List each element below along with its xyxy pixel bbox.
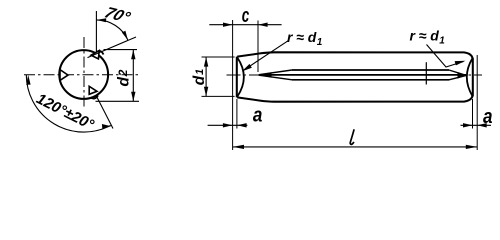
svg-text:a: a — [253, 105, 263, 127]
d1 arrow bottom — [204, 87, 208, 97]
a dimension line right — [461, 124, 492, 126]
d1 dimension line — [205, 57, 207, 96]
svg-text:d1: d1 — [191, 69, 208, 86]
pin left end face — [236, 57, 238, 98]
extension line groove start — [257, 21, 259, 73]
extension line pin right tip — [476, 55, 478, 150]
70° arc arrow right — [122, 31, 128, 40]
70° arc arrow left — [97, 18, 107, 22]
c arrow left — [223, 23, 233, 27]
groove notch left (180°) — [60, 70, 68, 81]
centerline (side view) — [227, 74, 483, 76]
l dimension line — [233, 146, 478, 148]
120° arc arrow left — [26, 75, 30, 85]
a arrow left-inner — [237, 123, 247, 127]
d2 extension line top — [104, 49, 138, 51]
a dimension line left — [208, 124, 248, 126]
centerline vertical (circle view) — [83, 37, 85, 109]
l arrow right — [466, 145, 477, 149]
leader arrow right — [455, 61, 466, 66]
leader r~d1 right — [427, 45, 464, 68]
crown edge arc left — [237, 57, 244, 96]
pin right end face — [472, 58, 474, 96]
groove taper top-right — [449, 70, 466, 75]
d2 extension line bottom — [96, 100, 140, 102]
bump top-right notch — [98, 51, 104, 55]
groove taper top-left — [259, 70, 292, 75]
groove apex wedge right — [458, 72, 467, 79]
pin cross-section circle — [59, 50, 108, 99]
centerline horizontal (circle view) — [24, 74, 139, 76]
70° flank line slanted — [88, 37, 137, 58]
d1 extension top — [202, 56, 235, 58]
groove apex wedge left — [259, 72, 272, 78]
svg-text:d2: d2 — [116, 69, 133, 86]
c dimension line — [209, 24, 281, 26]
d1 arrow top — [204, 57, 208, 67]
crown edge arc right — [467, 58, 473, 96]
c arrow right — [258, 23, 268, 27]
a arrow right-outer — [477, 123, 487, 127]
label l — [350, 129, 354, 144]
120° radial extension line — [97, 96, 114, 128]
bump bottom-right notch — [91, 96, 99, 99]
120° arc arrow bottom — [102, 124, 111, 129]
a arrow left-outer — [223, 123, 233, 127]
groove line middle — [259, 74, 466, 76]
120° dimension arc — [26, 75, 110, 132]
l arrow left — [233, 145, 244, 149]
label 70° — [101, 4, 133, 26]
pin outline bottom — [237, 96, 472, 102]
extension line pin left tip — [232, 20, 234, 150]
d1 extension bottom — [202, 95, 235, 97]
groove line bottom — [292, 79, 449, 81]
70° dimension arc — [97, 20, 128, 40]
groove full-depth tick — [425, 62, 427, 84]
groove line top — [292, 69, 449, 71]
d2 dimension line — [132, 50, 134, 102]
groove notch bottom-right (300°) — [89, 86, 97, 94]
extension line pin right face — [472, 99, 474, 129]
leader arrow left — [242, 64, 252, 72]
svg-text:a: a — [483, 106, 493, 128]
groove taper bottom-left — [259, 75, 292, 80]
groove taper bottom-right — [449, 75, 466, 79]
a arrow right-inner — [463, 123, 473, 127]
leader r~d1 left — [244, 41, 289, 71]
70° flank line vertical — [95, 11, 97, 52]
d2 arrow top — [131, 50, 135, 60]
pin outline top — [237, 52, 472, 58]
groove notch top-right (60°) — [91, 51, 99, 59]
svg-text:c: c — [242, 5, 250, 27]
d2 arrow bottom — [131, 92, 135, 102]
extension line pin left face — [236, 99, 238, 129]
